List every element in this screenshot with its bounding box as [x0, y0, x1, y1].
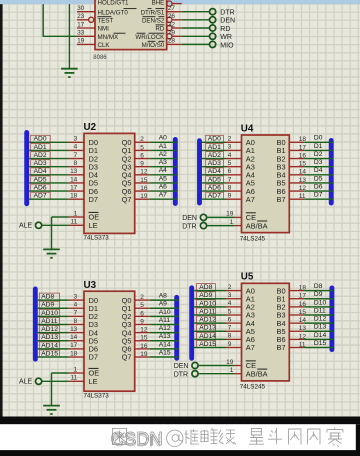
svg-text:6: 6: [140, 310, 144, 317]
wires U5 B side to D bus: [304, 291, 334, 348]
svg-text:B7: B7: [277, 195, 286, 204]
U5 right pin numbers 18-11: [299, 285, 307, 349]
U1 TEST pin inversion bubble: [89, 17, 94, 22]
svg-text:74LS245: 74LS245: [240, 235, 266, 242]
net labels A8-A15: [159, 293, 171, 357]
svg-text:15: 15: [140, 335, 148, 342]
svg-text:Q7: Q7: [122, 195, 132, 204]
wire ALE to U3 LE: [42, 380, 69, 382]
wire U1 to terminal RD: [182, 27, 210, 29]
U2 right pin numbers 2,5,6,9,12,15,16,19: [140, 136, 148, 200]
svg-text:12: 12: [140, 327, 148, 334]
U4 AB/BA pin name: [246, 221, 268, 230]
svg-text:MIO: MIO: [220, 42, 234, 49]
svg-text:2: 2: [228, 136, 232, 143]
svg-text:D2: D2: [314, 151, 323, 158]
svg-text:D14: D14: [314, 332, 327, 339]
U4 right pin numbers 18-11: [299, 136, 307, 200]
svg-text:1: 1: [74, 366, 78, 373]
svg-text:16: 16: [140, 185, 148, 192]
svg-text:WR: WR: [220, 34, 232, 41]
wire DEN to U5 CE: [198, 365, 234, 367]
svg-text:7: 7: [74, 152, 78, 159]
svg-text:11: 11: [71, 219, 78, 226]
U1 left pin stubs (HLDA/GT0, TEST, NMI, MN/MX, CLK): [77, 12, 95, 45]
svg-text:A11: A11: [159, 317, 171, 324]
svg-text:2: 2: [140, 294, 144, 301]
wire to U3 OE: [52, 372, 69, 374]
svg-text:D5: D5: [314, 175, 323, 182]
svg-text:CSDN: CSDN: [113, 431, 161, 450]
svg-text:MN/MX: MN/MX: [98, 34, 119, 41]
svg-text:8086: 8086: [93, 55, 107, 61]
U5 left pin numbers 2-9: [228, 284, 232, 348]
svg-text:D7: D7: [314, 192, 323, 199]
svg-text:7: 7: [74, 310, 78, 317]
svg-text:DTR: DTR: [220, 10, 234, 17]
transceiver U4 74LS245: [242, 135, 290, 233]
svg-text:5: 5: [140, 302, 144, 309]
terminal DTR (U4): [182, 223, 206, 231]
svg-text:A8: A8: [159, 293, 167, 300]
svg-text:3: 3: [228, 292, 232, 299]
U5 B-side pin names B0-B7: [277, 286, 286, 352]
svg-text:8: 8: [74, 318, 78, 325]
U4 right pin stubs: [289, 142, 304, 199]
svg-text:D6: D6: [314, 183, 323, 190]
wires U3 outputs to A bus: [150, 300, 179, 357]
svg-text:74LS373: 74LS373: [84, 393, 110, 400]
svg-text:DEN: DEN: [182, 215, 197, 222]
svg-text:3: 3: [228, 144, 232, 151]
svg-text:13: 13: [70, 168, 78, 175]
svg-text:17: 17: [70, 342, 78, 349]
svg-text:9: 9: [228, 193, 232, 200]
svg-text:NMI: NMI: [98, 26, 110, 33]
wires U4 B side to D bus: [304, 142, 333, 199]
svg-text:D8: D8: [314, 283, 323, 290]
svg-text:5: 5: [228, 160, 232, 167]
svg-text:A9: A9: [159, 301, 167, 308]
terminal ALE (U2): [19, 222, 42, 230]
CPU U1 8086: [95, 0, 167, 50]
bus A (U2 right): [173, 140, 178, 204]
svg-text:2: 2: [228, 284, 232, 291]
svg-text:D11: D11: [314, 307, 326, 314]
U4 left pin stubs: [226, 142, 242, 225]
svg-text:A2: A2: [159, 151, 167, 158]
svg-text:1: 1: [230, 367, 234, 374]
svg-text:A13: A13: [159, 333, 171, 340]
transceiver U5 74LS245: [242, 283, 290, 381]
U4 B-side pin names B0-B7: [277, 138, 286, 204]
svg-text:30: 30: [77, 5, 85, 12]
svg-text:26: 26: [168, 13, 176, 20]
svg-text:A10: A10: [159, 309, 171, 316]
svg-text:Q7: Q7: [122, 353, 132, 362]
terminal DEN: [210, 17, 236, 25]
wire DTR to U4 AB/BA: [207, 225, 235, 227]
svg-text:29: 29: [168, 30, 176, 37]
svg-text:HLDA/GT0: HLDA/GT0: [98, 9, 129, 16]
U3 right pin numbers 2,5,6,9,12,15,16,19: [140, 294, 148, 358]
svg-text:7: 7: [228, 325, 232, 332]
svg-text:16: 16: [140, 343, 148, 350]
bus AD (U4 left): [197, 141, 202, 203]
U2 left pin stubs: [69, 142, 84, 225]
U1 right pin numbers 27,26,32,29,28: [168, 5, 176, 45]
bus D (U5 right): [329, 288, 334, 350]
net labels AD0-AD7: [31, 135, 51, 199]
svg-text:LE: LE: [89, 221, 98, 230]
wire DTR to U5 AB/BA: [198, 373, 234, 375]
svg-text:D7: D7: [89, 353, 98, 362]
svg-text:DEN: DEN: [220, 18, 235, 25]
U3 left pin stubs: [69, 300, 84, 381]
net labels D8-D15: [314, 283, 327, 347]
svg-text:14: 14: [70, 176, 78, 183]
net labels D0-D7: [314, 135, 323, 199]
svg-text:DT/R/S1: DT/R/S1: [141, 9, 165, 16]
terminal RD: [210, 25, 231, 33]
svg-text:23: 23: [77, 13, 85, 20]
svg-text:ALE: ALE: [19, 223, 33, 230]
U2 OE pin name: [89, 212, 100, 221]
bus D (U4 right): [329, 141, 334, 204]
svg-text:8: 8: [228, 333, 232, 340]
svg-text:AB/BA: AB/BA: [246, 221, 268, 230]
svg-text:9: 9: [228, 341, 232, 348]
U2 output pin names Q0-Q7: [122, 138, 132, 204]
svg-text:7: 7: [228, 176, 232, 183]
net labels AD8-AD15: [197, 284, 217, 348]
U5 AB/BA pin name: [246, 369, 268, 378]
svg-text:DEN/S2: DEN/S2: [142, 18, 165, 25]
svg-text:BHE: BHE: [152, 0, 165, 6]
bus AD (U5 left): [189, 288, 194, 359]
U3 output pin names Q0-Q7: [122, 296, 132, 362]
svg-text:U4: U4: [241, 123, 254, 134]
svg-text:6: 6: [140, 152, 144, 159]
svg-text:74LS245: 74LS245: [240, 384, 266, 391]
wire junction vertical OE/ground (U2): [51, 217, 53, 250]
svg-text:D13: D13: [314, 324, 327, 331]
terminal DTR: [210, 9, 235, 17]
svg-text:A7: A7: [246, 195, 255, 204]
svg-text:19: 19: [140, 193, 148, 200]
U2 left pin numbers 3,4,7,8,13,14,17,18: [70, 136, 78, 200]
wires AD bus to U3 inputs: [38, 300, 69, 357]
svg-text:WR/LOCK: WR/LOCK: [135, 34, 165, 41]
U1 left pin name labels: [98, 0, 137, 49]
svg-text:D9: D9: [314, 291, 323, 298]
svg-text:2: 2: [140, 136, 144, 143]
svg-text:19: 19: [77, 38, 85, 45]
svg-text:13: 13: [70, 326, 78, 333]
svg-text:33: 33: [77, 30, 85, 37]
latch U2 74LS373: [84, 133, 135, 233]
U2 input pin names D0-D7: [89, 138, 98, 204]
wires AD bus to U4 A side: [202, 142, 226, 199]
bus A (U3 right): [174, 297, 179, 358]
svg-text:B7: B7: [277, 343, 286, 352]
U5 A-side pin names A0-A7: [246, 286, 255, 352]
U4 left pin numbers 2-9: [228, 136, 232, 200]
caption + watermark text: 图 CSDN @星斗闪闪寒 overlap: [112, 428, 126, 444]
svg-text:A4: A4: [159, 167, 167, 174]
svg-text:A0: A0: [159, 135, 167, 142]
svg-text:17: 17: [70, 184, 78, 191]
terminal WR: [210, 33, 232, 41]
U2 right pin stubs: [135, 142, 150, 199]
svg-text:HOLD/GT1: HOLD/GT1: [98, 0, 130, 6]
svg-text:D4: D4: [314, 167, 323, 174]
svg-text:D1: D1: [314, 143, 323, 150]
wires U2 outputs to A bus: [150, 142, 178, 199]
wire U1 to terminal DTR: [182, 11, 210, 13]
svg-text:4: 4: [228, 300, 232, 307]
svg-text:A15: A15: [159, 349, 171, 356]
svg-text:DEN: DEN: [174, 363, 189, 370]
U4 CE pin name: [246, 213, 256, 222]
terminal DEN (U5): [174, 362, 198, 370]
wire ALE to U2 LE: [42, 224, 69, 226]
svg-text:14: 14: [70, 334, 78, 341]
svg-text:27: 27: [168, 5, 176, 12]
wire vertical into MN/MX net: [42, 4, 44, 36]
wire junction vertical OE/ground (U3): [51, 373, 53, 407]
svg-text:U2: U2: [84, 122, 97, 133]
svg-text:1: 1: [230, 219, 234, 226]
wire to U2 OE: [52, 216, 69, 218]
svg-text:ALE: ALE: [19, 379, 33, 386]
wire MN/MX row: [43, 35, 77, 37]
wire U1 to terminal MIO: [182, 43, 210, 45]
svg-text:CLK: CLK: [98, 42, 111, 49]
svg-text:32: 32: [168, 21, 176, 28]
svg-text:3: 3: [74, 293, 78, 300]
svg-text:D10: D10: [314, 299, 327, 306]
svg-text:M/IO/S0: M/IO/S0: [142, 42, 165, 49]
svg-text:DTR: DTR: [174, 371, 188, 378]
svg-text:8: 8: [228, 184, 232, 191]
svg-text:RD: RD: [155, 26, 164, 33]
svg-text:19: 19: [226, 359, 234, 366]
U5 CE pin name: [246, 361, 256, 370]
net labels AD8-AD15: [39, 293, 59, 357]
svg-text:A3: A3: [159, 159, 167, 166]
U3 left pin numbers 3,4,7,8,13,14,17,18: [70, 293, 78, 357]
svg-text:A7: A7: [246, 343, 255, 352]
U3 right pin stubs: [135, 300, 150, 357]
svg-text:19: 19: [226, 211, 234, 218]
svg-text:3: 3: [74, 136, 78, 143]
svg-text:D0: D0: [314, 135, 323, 142]
wire U1 to terminal WR: [182, 35, 210, 37]
svg-text:74LS373: 74LS373: [84, 235, 110, 242]
ground U3 OE net: [43, 406, 60, 414]
terminal ALE (U3): [19, 378, 42, 386]
svg-text:11: 11: [71, 375, 78, 382]
svg-text:28: 28: [168, 38, 176, 45]
svg-text:D7: D7: [89, 195, 98, 204]
terminal DEN (U4): [182, 214, 206, 222]
svg-text:1: 1: [74, 210, 78, 217]
svg-text:4: 4: [228, 152, 232, 159]
U1 right pin stubs (BHE, DT/R, DEN, RD, WR, M/IO): [167, 4, 182, 45]
svg-text:TEST: TEST: [98, 18, 114, 25]
bus AD (U2 left): [24, 133, 29, 204]
U3 input pin names D0-D7: [89, 296, 98, 362]
wires AD bus to U5 A side: [194, 291, 226, 348]
svg-text:18: 18: [70, 350, 78, 357]
U3 OE pin name: [89, 368, 100, 377]
svg-text:LE: LE: [89, 377, 98, 386]
terminal DTR (U5): [174, 371, 198, 379]
svg-text:6: 6: [228, 168, 232, 175]
svg-text:A7: A7: [159, 192, 167, 199]
U4 A-side pin names A0-A7: [246, 138, 255, 204]
svg-text:19: 19: [140, 351, 148, 358]
svg-text:U5: U5: [241, 272, 254, 283]
svg-text:A12: A12: [159, 325, 171, 332]
svg-text:9: 9: [140, 318, 144, 325]
svg-text:D3: D3: [314, 159, 323, 166]
U1 inversion bubbles BHE/DEN/RD/WR: [167, 1, 172, 39]
wire DEN to U4 CE: [207, 216, 235, 218]
svg-text:4: 4: [74, 144, 78, 151]
net labels A0-A7: [159, 135, 167, 199]
svg-text:6: 6: [228, 316, 232, 323]
ground U2 OE net: [43, 249, 60, 257]
svg-text:AB/BA: AB/BA: [246, 369, 268, 378]
svg-text:U3: U3: [84, 280, 97, 291]
svg-text:D12: D12: [314, 316, 327, 323]
latch U3 74LS373: [84, 291, 135, 391]
svg-text:4: 4: [74, 302, 78, 309]
svg-text:D15: D15: [314, 340, 327, 347]
svg-text:8: 8: [74, 160, 78, 167]
svg-text:12: 12: [140, 169, 148, 176]
wires AD bus to U2 inputs: [29, 142, 69, 199]
svg-text:A5: A5: [159, 175, 167, 182]
U1 right pin name labels: [135, 0, 165, 49]
U1 left pin numbers 30,23,17,33,19: [77, 5, 85, 45]
svg-text:DTR: DTR: [182, 223, 196, 230]
svg-text:15: 15: [140, 177, 148, 184]
net labels AD0-AD7: [206, 135, 224, 199]
svg-text:17: 17: [77, 21, 85, 28]
svg-text:18: 18: [70, 193, 78, 200]
svg-text:A6: A6: [159, 183, 167, 190]
U5 left pin stubs: [226, 291, 242, 374]
U5 right pin stubs: [289, 291, 304, 348]
bus AD (U3 left): [33, 289, 38, 359]
svg-text:A14: A14: [159, 341, 171, 348]
ground U1 MN/MX net: [61, 69, 78, 77]
wire vertical to ground: [68, 4, 70, 69]
svg-text:9: 9: [140, 161, 144, 168]
svg-text:RD: RD: [220, 26, 230, 33]
svg-text:A1: A1: [159, 143, 167, 150]
svg-text:5: 5: [228, 308, 232, 315]
terminal MIO: [210, 41, 235, 49]
svg-text:5: 5: [140, 144, 144, 151]
wire U1 to terminal DEN: [182, 19, 210, 21]
